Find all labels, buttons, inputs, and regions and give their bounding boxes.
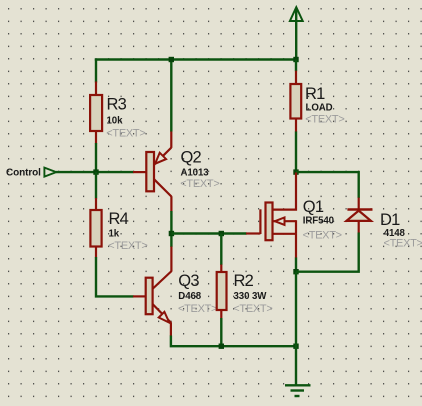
node R2 top junction xyxy=(219,231,224,236)
svg-text:1k: 1k xyxy=(109,229,120,240)
node control junction xyxy=(93,169,98,174)
diode D1 xyxy=(346,198,422,250)
node R2 bottom junction xyxy=(219,344,224,349)
svg-text:<TEXT>: <TEXT> xyxy=(384,238,422,250)
wire Q1 source down xyxy=(295,258,297,273)
resistor R1 xyxy=(290,71,344,132)
svg-text:<TEXT>: <TEXT> xyxy=(233,303,272,315)
node ground junction xyxy=(293,344,298,349)
svg-text:330 3W: 330 3W xyxy=(234,291,268,302)
svg-text:Control: Control xyxy=(6,168,41,179)
svg-text:<TEXT>: <TEXT> xyxy=(180,178,219,190)
svg-text:Q1: Q1 xyxy=(303,198,324,216)
wire R3 to control line xyxy=(95,143,97,173)
svg-text:R3: R3 xyxy=(107,96,127,114)
ground xyxy=(285,385,311,396)
resistor R4 xyxy=(90,198,147,258)
transistor Q3 base pin xyxy=(133,295,146,297)
svg-text:<TEXT>: <TEXT> xyxy=(305,114,344,126)
wire Q2 collector down xyxy=(170,211,172,234)
svg-text:Q3: Q3 xyxy=(178,272,199,290)
node source junction xyxy=(293,269,298,274)
wire R2 bottom xyxy=(220,318,222,347)
svg-text:A1013: A1013 xyxy=(181,167,210,178)
wire R1 top xyxy=(295,60,297,72)
svg-text:LOAD: LOAD xyxy=(306,103,333,114)
wire source to ground rail xyxy=(295,272,297,347)
svg-text:D1: D1 xyxy=(380,211,400,229)
wire D1 bottom xyxy=(296,233,359,272)
svg-text:IRF540: IRF540 xyxy=(303,216,334,227)
resistor R3 xyxy=(90,82,145,144)
node top rail junction xyxy=(169,57,174,62)
wire R4 top xyxy=(95,172,97,199)
svg-text:R2: R2 xyxy=(234,272,254,290)
wire top rail xyxy=(95,58,297,60)
svg-text:R4: R4 xyxy=(109,210,129,228)
wire bottom rail xyxy=(171,336,297,347)
svg-text:D468: D468 xyxy=(178,291,201,302)
svg-text:10k: 10k xyxy=(107,115,124,126)
wire drain to D1 top xyxy=(296,172,359,198)
transistor Q1 xyxy=(260,198,341,258)
svg-text:<TEXT>: <TEXT> xyxy=(178,303,217,315)
transistor Q2 base pin xyxy=(133,171,146,173)
node drain junction xyxy=(293,169,298,174)
node gate junction xyxy=(169,231,174,236)
svg-text:<TEXT>: <TEXT> xyxy=(106,127,145,139)
power symbol VCC xyxy=(290,7,303,59)
svg-text:<TEXT>: <TEXT> xyxy=(303,229,342,241)
wire R1 bottom xyxy=(295,132,297,173)
wire left rail upper xyxy=(95,59,97,83)
transistor Q1 gate pin xyxy=(246,232,260,234)
wire R4 to Q3 base xyxy=(96,257,134,296)
wire ground stem xyxy=(295,345,297,385)
wire control line xyxy=(56,171,134,173)
transistor Q3 collector pin xyxy=(152,247,171,290)
svg-text:Q2: Q2 xyxy=(181,148,202,166)
svg-text:<TEXT>: <TEXT> xyxy=(108,240,147,252)
svg-text:R1: R1 xyxy=(305,85,325,103)
transistor Q2 xyxy=(146,131,219,212)
transistor Q3 xyxy=(146,272,217,336)
wire gate line xyxy=(171,232,246,234)
terminal Control xyxy=(6,168,56,179)
wire R2 top xyxy=(220,234,222,266)
transistor Q1 drain pin xyxy=(273,173,297,210)
wire Q3 collector up xyxy=(170,233,172,247)
wire Q2 emitter up xyxy=(170,60,172,132)
resistor R2 xyxy=(217,265,273,319)
node rail to power junction xyxy=(293,57,298,62)
